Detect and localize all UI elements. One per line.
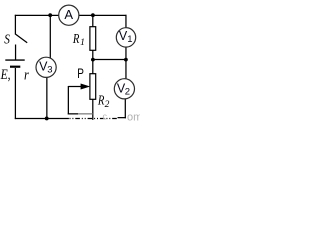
node junction dot top (R1 branch)	[91, 13, 95, 17]
node junction dot middle-left	[91, 58, 95, 62]
wire bottom-right corner	[118, 117, 126, 119]
svg-text:E,: E,	[0, 66, 11, 83]
potentiometer P wiper arrow shaft	[68, 86, 83, 88]
wire V3 bottom lead	[46, 77, 48, 118]
svg-text:A: A	[64, 7, 73, 22]
svg-text:R: R	[72, 31, 80, 47]
wire V2 bottom lead	[124, 99, 126, 119]
ammeter A circle	[59, 5, 79, 25]
battery E,r long plate	[5, 59, 24, 61]
wire top-right horizontal	[79, 14, 127, 16]
node junction dot middle-right	[124, 58, 128, 62]
svg-text:P: P	[77, 65, 84, 81]
wire V1 bottom lead	[125, 47, 127, 60]
wire battery to bottom rail	[14, 68, 16, 119]
resistor R1 box	[90, 27, 96, 51]
wire right drop to V1	[125, 15, 127, 28]
svg-text:om: om	[127, 112, 140, 124]
svg-text:2: 2	[125, 87, 130, 98]
svg-text:1: 1	[80, 38, 85, 48]
wire R1 top lead	[92, 14, 94, 26]
voltmeter V3 circle	[36, 57, 56, 77]
wire R2 top lead	[92, 60, 94, 74]
wire R1 bottom lead	[92, 50, 94, 59]
potentiometer P wiper return horizontal (dark part)	[68, 113, 78, 115]
svg-text:c: c	[103, 112, 108, 122]
wire middle rail	[93, 59, 126, 61]
node junction dot top-left (V3 branch)	[48, 13, 52, 17]
voltmeter V2 circle	[114, 79, 134, 99]
potentiometer P wiper down lead	[67, 86, 69, 114]
svg-text:1: 1	[127, 34, 132, 45]
potentiometer P wiper arrowhead	[81, 84, 91, 90]
wire bottom rail left	[15, 118, 69, 120]
svg-text:R: R	[97, 92, 105, 108]
wire R2 bottom lead	[92, 99, 94, 120]
voltmeter V1 circle	[116, 28, 135, 47]
node junction dot bottom (V3 branch)	[45, 117, 49, 121]
switch S blade	[15, 34, 27, 43]
wire left vertical to switch	[14, 15, 16, 34]
wire V2 top lead	[125, 60, 127, 79]
svg-text:S: S	[4, 31, 10, 46]
wire top-left horizontal	[15, 14, 59, 16]
wire V3 top lead	[49, 15, 51, 58]
potentiometer P wiper return horizontal (grey part)	[78, 113, 93, 115]
battery E,r short plate	[10, 66, 20, 68]
wire switch lower contact	[15, 45, 17, 60]
svg-text:3: 3	[47, 65, 52, 76]
svg-text:r: r	[24, 66, 29, 82]
svg-text:2: 2	[105, 100, 110, 110]
resistor R2 box (potentiometer track)	[90, 74, 96, 100]
wire bottom rail dash-dot	[70, 117, 118, 119]
